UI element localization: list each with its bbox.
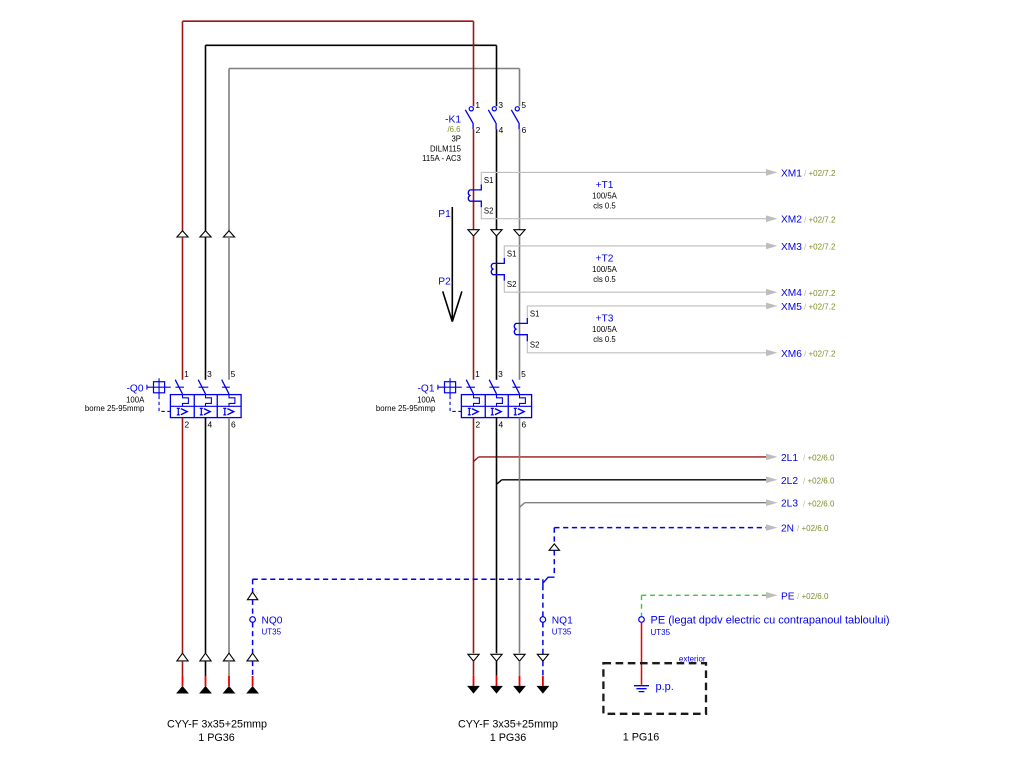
- CT secondary wire from +T1 S1 to terminal XM1: [481, 172, 766, 186]
- svg-text:+02/7.2: +02/7.2: [809, 215, 836, 224]
- cable exit arrow (open) outgoing L2: [491, 654, 502, 661]
- svg-text:100/5A: 100/5A: [592, 325, 618, 334]
- circuit breaker Q0 label block: [85, 383, 145, 413]
- svg-text:XM3: XM3: [781, 242, 802, 253]
- Q1 pole 1 switch blade, pins 1/2: [466, 369, 480, 429]
- svg-text:cls 0.5: cls 0.5: [593, 275, 616, 284]
- wire L2 top run from left riser to contactor K1 pin 3: [206, 44, 497, 46]
- interruption arrow on NQ0 drop: [247, 592, 257, 600]
- circuit breaker Q1 label block: [376, 383, 436, 413]
- label NQ0 / UT35: [262, 615, 283, 636]
- Q1 pole 1 magnetic trip element I&gt;: [468, 408, 471, 415]
- connection point arrow XM6: [766, 350, 778, 357]
- svg-text:p.p.: p.p.: [656, 681, 674, 693]
- svg-text:XM5: XM5: [781, 302, 802, 313]
- neutral segment from arrow to terminal NQ0: [252, 600, 254, 617]
- svg-text:100/5A: 100/5A: [592, 192, 618, 201]
- feeder arrow P1/P2 shaft: [451, 207, 453, 321]
- neutral stub below exit arrow: [542, 661, 544, 676]
- svg-text:+02/7.2: +02/7.2: [809, 243, 836, 252]
- svg-text:+02/6.0: +02/6.0: [802, 592, 829, 601]
- CT secondary wire from +T3 S1 to terminal XM5: [527, 306, 766, 320]
- PE conductor (red) down to earth electrode: [641, 622, 643, 685]
- svg-text:2L2: 2L2: [781, 476, 798, 487]
- terminal NQ1: [540, 617, 546, 623]
- svg-text:-Q1: -Q1: [418, 383, 435, 394]
- cable exit arrow (open) on neutral: [537, 654, 548, 661]
- svg-text:S1: S1: [507, 250, 517, 259]
- wire L1 below Q1 down to cable exit: [473, 418, 475, 654]
- wire L3 stub below entry arrow: [228, 661, 230, 676]
- connection point arrow 2N: [766, 524, 778, 531]
- interruption arrow (open triangle down) on wire L3: [514, 230, 525, 236]
- exterior enclosure (dashed box): [603, 663, 706, 714]
- svg-text:borne 25-95mmp: borne 25-95mmp: [85, 404, 145, 413]
- Q0 operating mechanism (crossed box): [147, 378, 171, 395]
- Q0 pole 1 thermal overload element: [183, 395, 189, 407]
- Q1 mechanical link dashes: [467, 386, 521, 388]
- interruption arrow (open triangle up) on wire L1: [177, 231, 188, 237]
- svg-text:+02/6.0: +02/6.0: [802, 524, 829, 533]
- CT secondary wire from +T3 S2 to terminal XM6: [527, 340, 766, 353]
- wire L2 stub below exit arrow: [496, 661, 498, 676]
- cable entry arrow (open) on incoming L1: [177, 653, 188, 661]
- Q1 pole 2 thermal overload element: [497, 395, 503, 407]
- svg-text:+02/7.2: +02/7.2: [809, 289, 836, 298]
- op contactor K1 pole 3 (contact circle + blade, pins 5/6): [511, 100, 526, 135]
- cable core segment (red) outgoing L3: [519, 676, 521, 686]
- neutral stub below entry arrow: [252, 661, 254, 676]
- svg-text:S1: S1: [484, 176, 494, 185]
- svg-text:2: 2: [476, 419, 481, 429]
- svg-text:NQ0: NQ0: [262, 615, 283, 626]
- CT secondary wire from +T2 S2 to terminal XM4: [504, 279, 766, 292]
- cable entry arrow (open) on incoming L3: [223, 653, 234, 661]
- wire L3 segment from K1 pin 6 down through CT to interruption arrow: [519, 129, 521, 230]
- connection point arrow 2L1: [766, 454, 778, 461]
- svg-text:1 PG36: 1 PG36: [490, 732, 527, 744]
- wire L3 top run from left riser to contactor K1 pin 5: [229, 68, 520, 70]
- op contactor K1 pole 1 (contact circle + blade, pins 1/2): [465, 100, 480, 135]
- Q0 pole 1 magnetic trip element I&gt;: [177, 408, 180, 415]
- cable end arrow (filled) incoming neutral: [246, 686, 259, 694]
- Q0 pole 2 thermal overload element: [206, 395, 212, 407]
- wire L2 left riser lower segment to breaker Q0 pin 3: [205, 237, 207, 380]
- svg-text:/6.6: /6.6: [447, 125, 460, 134]
- svg-text:3: 3: [498, 369, 503, 379]
- Q0 trip-unit link (dashed): [159, 396, 170, 412]
- svg-text:3: 3: [207, 369, 212, 379]
- svg-text:P2: P2: [438, 277, 451, 288]
- svg-text:cls 0.5: cls 0.5: [593, 202, 616, 211]
- svg-text:+T3: +T3: [596, 314, 614, 325]
- connection point arrow XM3: [766, 243, 778, 250]
- outgoing line PE (green dashed): [642, 594, 767, 596]
- branch jog from wire L2 to 2L2: [497, 480, 502, 485]
- node label XM3 with cross-reference: [781, 242, 836, 253]
- svg-text:UT35: UT35: [262, 628, 282, 637]
- connection point arrow 2L2: [766, 477, 778, 484]
- node label XM1 with cross-reference: [781, 168, 836, 179]
- svg-text:exterior: exterior: [679, 655, 706, 664]
- svg-text:1 PG36: 1 PG36: [198, 732, 235, 744]
- wire L3 below Q0 down to cable entry: [228, 418, 230, 654]
- svg-text:S2: S2: [530, 341, 540, 350]
- Q1 pole 2 magnetic trip element I&gt;: [491, 408, 494, 415]
- wire L2 below Q0 down to cable entry: [205, 418, 207, 654]
- svg-text:2: 2: [185, 419, 190, 429]
- wire L1 top run from left riser to contactor K1 pin 1: [183, 20, 474, 22]
- cable end arrow (filled) incoming L2: [199, 686, 212, 694]
- svg-text:borne 25-95mmp: borne 25-95mmp: [376, 404, 436, 413]
- contactor K1 label block: [422, 115, 462, 163]
- svg-text:CYY-F 3x35+25mmp: CYY-F 3x35+25mmp: [458, 719, 558, 731]
- connection point arrow 2L3: [766, 499, 778, 506]
- svg-text:1: 1: [475, 369, 480, 379]
- node label 2N with cross-reference: [781, 524, 829, 535]
- Q1 pole 2 switch blade, pins 3/4: [489, 369, 503, 429]
- connection point arrow XM2: [766, 215, 778, 222]
- neutral below NQ0 to cable entry: [252, 622, 254, 653]
- Q1 pole 3 thermal overload element: [520, 395, 526, 407]
- branch jog from wire L1 to 2L1: [474, 457, 479, 462]
- op contactor K1 pole 2 (contact circle + blade, pins 3/4): [488, 100, 503, 135]
- interruption arrow (open triangle up) on wire L2: [200, 231, 211, 237]
- wire L1 segment from K1 pin 2 down through CT to interruption arrow: [473, 129, 475, 230]
- svg-text:cls 0.5: cls 0.5: [593, 335, 616, 344]
- svg-text:XM6: XM6: [781, 349, 802, 360]
- terminal PE: [639, 617, 645, 623]
- node label XM5 with cross-reference: [781, 302, 836, 313]
- svg-text:6: 6: [522, 125, 527, 135]
- svg-text:1: 1: [184, 369, 189, 379]
- svg-text:6: 6: [522, 419, 527, 429]
- feeder arrow head: [443, 291, 462, 321]
- cable core segment (red) incoming L2: [205, 676, 207, 686]
- CT secondary wire from +T1 S2 to terminal XM2: [481, 206, 766, 219]
- svg-text:3: 3: [498, 100, 503, 110]
- wire L1 left riser upper segment: [182, 21, 184, 231]
- svg-text:3P: 3P: [451, 134, 461, 143]
- cable core segment (red) incoming L3: [228, 676, 230, 686]
- svg-text:P1: P1: [438, 209, 451, 220]
- Q1 trip-unit link (dashed): [450, 396, 461, 412]
- current transformer +T3 secondary winding: [514, 318, 527, 341]
- cable core segment (red) incoming L1: [182, 676, 184, 686]
- svg-text:+02/7.2: +02/7.2: [809, 349, 836, 358]
- interruption arrow (open triangle down) on wire L1: [468, 230, 479, 236]
- svg-text:6: 6: [231, 419, 236, 429]
- Q1 operating mechanism (crossed box): [438, 378, 462, 395]
- connection point arrow PE: [766, 592, 778, 599]
- earth ground symbol: [634, 686, 649, 692]
- Q0 pole 3 thermal overload element: [229, 395, 235, 407]
- branch jog from wire L3 to 2L3: [520, 503, 525, 508]
- svg-text:5: 5: [231, 369, 236, 379]
- cable end arrow (filled) outgoing L3: [513, 686, 526, 694]
- wire L1 segment from arrow down to breaker Q1 pin 1: [473, 236, 475, 380]
- svg-text:+02/6.0: +02/6.0: [808, 476, 835, 485]
- wire L1 stub below entry arrow: [182, 661, 184, 676]
- connection point arrow XM4: [766, 289, 778, 296]
- Q0 pole 2 magnetic trip element I&gt;: [200, 408, 203, 415]
- Q0 thermal-magnetic trip unit box: [170, 395, 241, 418]
- svg-text:+02/6.0: +02/6.0: [808, 454, 835, 463]
- interruption arrow (open triangle up) on wire L3: [223, 231, 234, 237]
- svg-text:2N: 2N: [781, 524, 794, 535]
- wire L3 below Q1 down to cable exit: [519, 418, 521, 654]
- CT secondary wire from +T2 S1 to terminal XM3: [504, 246, 766, 260]
- svg-text:S2: S2: [507, 280, 517, 289]
- svg-text:115A - AC3: 115A - AC3: [422, 154, 461, 163]
- terminal NQ0: [250, 617, 256, 623]
- wire L2 right riser to K1 pin 3: [496, 45, 498, 106]
- PE drop (green dashed) to terminal: [641, 595, 643, 616]
- node label XM4 with cross-reference: [781, 288, 836, 299]
- neutral below NQ1 to cable exit: [542, 622, 544, 654]
- current transformer +T1 secondary winding: [468, 185, 481, 208]
- wire L2 segment from K1 pin 4 down through CT to interruption arrow: [496, 129, 498, 230]
- cable end arrow (filled) incoming L3: [223, 686, 236, 694]
- outgoing line 2N (dashed neutral): [554, 527, 766, 529]
- node label XM2 with cross-reference: [781, 215, 836, 226]
- svg-text:2L1: 2L1: [781, 453, 798, 464]
- node label XM6 with cross-reference: [781, 349, 836, 360]
- svg-text:4: 4: [499, 125, 504, 135]
- node label 2L3 with cross-reference: [781, 499, 835, 510]
- cable end arrow (filled) outgoing L2: [490, 686, 503, 694]
- cable core segment (red) outgoing L2: [496, 676, 498, 686]
- svg-text:PE (legat dpdv electric cu con: PE (legat dpdv electric cu contrapanoul …: [651, 615, 890, 627]
- svg-text:CYY-F 3x35+25mmp: CYY-F 3x35+25mmp: [167, 719, 267, 731]
- node label 2L2 with cross-reference: [781, 476, 835, 487]
- wire L3 left riser upper segment: [228, 69, 230, 231]
- wire L2 segment from arrow down to breaker Q1 pin 3: [496, 236, 498, 380]
- node label PE with cross-reference: [781, 591, 829, 602]
- outgoing line 2L1: [479, 456, 766, 458]
- svg-text:4: 4: [499, 419, 504, 429]
- neutral from junction down to terminal NQ1: [542, 585, 544, 617]
- svg-text:+02/7.2: +02/7.2: [809, 303, 836, 312]
- cable entry arrow (open) on neutral: [247, 653, 258, 661]
- svg-text:XM1: XM1: [781, 168, 802, 179]
- svg-text:XM4: XM4: [781, 288, 802, 299]
- connection point arrow XM1: [766, 169, 778, 176]
- wire L1 left riser lower segment to breaker Q0 pin 1: [182, 237, 184, 380]
- Q0 pole 3 switch blade, pins 5/6: [222, 369, 236, 429]
- Q1 pole 3 magnetic trip element I&gt;: [514, 408, 517, 415]
- connection point arrow XM5: [766, 303, 778, 310]
- svg-text:5: 5: [521, 100, 526, 110]
- svg-text:-Q0: -Q0: [127, 383, 144, 394]
- Q1 pole 3 switch blade, pins 5/6: [512, 369, 526, 429]
- device tag +T3 with ratings: [592, 314, 618, 345]
- svg-text:DILM115: DILM115: [430, 144, 462, 153]
- label PE (legat dpdv electric cu contrapanoul tabloului) / UT35: [651, 615, 890, 637]
- svg-text:XM2: XM2: [781, 215, 802, 226]
- cable core segment (red) outgoing neutral: [542, 676, 544, 686]
- wire L2 below Q1 down to cable exit: [496, 418, 498, 654]
- wire L3 segment from arrow down to breaker Q1 pin 5: [519, 236, 521, 380]
- wire L1 right riser to K1 pin 1: [473, 21, 475, 106]
- Q1 thermal-magnetic trip unit box: [461, 395, 531, 418]
- neutral riser from junction up to 2N: [553, 528, 555, 544]
- svg-text:+02/7.2: +02/7.2: [809, 169, 836, 178]
- Q0 pole 3 magnetic trip element I&gt;: [223, 408, 226, 415]
- svg-text:2L3: 2L3: [781, 499, 798, 510]
- svg-text:UT35: UT35: [651, 628, 671, 637]
- device tag +T1 with ratings: [592, 180, 618, 211]
- neutral junction jog at NQ1: [543, 577, 554, 585]
- wire L3 stub below exit arrow: [519, 661, 521, 676]
- wire L2 left riser upper segment: [205, 45, 207, 230]
- neutral riser segment below arrow: [553, 550, 555, 577]
- svg-text:UT35: UT35: [552, 628, 572, 637]
- svg-text:PE: PE: [781, 591, 795, 602]
- cable end arrow (filled) outgoing L1: [467, 686, 480, 694]
- svg-text:S1: S1: [530, 310, 540, 319]
- wire L1 stub below exit arrow: [473, 661, 475, 676]
- wire L3 left riser lower segment to breaker Q0 pin 5: [228, 237, 230, 380]
- interruption arrow (open triangle down) on wire L2: [491, 230, 502, 236]
- cable entry arrow (open) on incoming L2: [200, 653, 211, 661]
- svg-text:5: 5: [521, 369, 526, 379]
- svg-text:+T1: +T1: [596, 180, 614, 191]
- neutral bus dashed run from NQ0 to NQ1 junction: [253, 578, 542, 580]
- current transformer +T2 secondary winding: [491, 258, 504, 281]
- svg-text:S2: S2: [484, 207, 494, 216]
- svg-text:1 PG16: 1 PG16: [623, 731, 660, 743]
- svg-text:-K1: -K1: [445, 115, 461, 126]
- svg-text:NQ1: NQ1: [552, 615, 573, 626]
- cable core segment (red) incoming neutral: [252, 676, 254, 686]
- Q0 mechanical link dashes: [176, 386, 230, 388]
- cable exit arrow (open) outgoing L3: [514, 654, 525, 661]
- svg-text:4: 4: [208, 419, 213, 429]
- svg-text:100/5A: 100/5A: [592, 265, 618, 274]
- wire L2 stub below entry arrow: [205, 661, 207, 676]
- svg-text:2: 2: [476, 125, 481, 135]
- label NQ1 / UT35: [552, 615, 573, 636]
- cable end arrow (filled) outgoing neutral: [537, 686, 550, 694]
- outgoing line 2L2: [502, 479, 766, 481]
- svg-text:1: 1: [475, 100, 480, 110]
- Q1 pole 1 thermal overload element: [474, 395, 480, 407]
- outgoing line 2L3: [525, 502, 766, 504]
- neutral drop from bus corner at NQ0: [252, 579, 254, 592]
- svg-text:+T2: +T2: [596, 254, 614, 265]
- cable core segment (red) outgoing L1: [473, 676, 475, 686]
- cable exit arrow (open) outgoing L1: [468, 654, 479, 661]
- device tag +T2 with ratings: [592, 254, 618, 285]
- wire L3 right riser to K1 pin 5: [519, 69, 521, 107]
- svg-text:+02/6.0: +02/6.0: [808, 499, 835, 508]
- interruption arrow on neutral riser: [549, 544, 559, 550]
- Q0 pole 2 switch blade, pins 3/4: [198, 369, 212, 429]
- wire L1 below Q0 down to cable entry: [182, 418, 184, 654]
- cable end arrow (filled) incoming L1: [176, 686, 189, 694]
- Q0 pole 1 switch blade, pins 1/2: [175, 369, 189, 429]
- node label 2L1 with cross-reference: [781, 453, 835, 464]
